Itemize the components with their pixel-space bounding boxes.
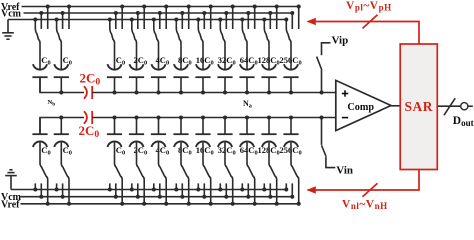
svg-text:C0: C0	[138, 55, 147, 67]
capacitor C1b (C0, bottom array)	[39, 118, 41, 135]
SAR block U2 (red box)	[400, 44, 437, 170]
svg-text:C0: C0	[292, 55, 301, 67]
switch S5b contacts (bottom, to rails)	[153, 183, 155, 189]
switch S8b arm (bottom)	[225, 142, 233, 203]
capacitor C7b (16C0, bottom array)	[202, 118, 204, 135]
node wire (bottom bus, right segment to comparator -)	[92, 117, 336, 119]
svg-text:Vnl~VnH: Vnl~VnH	[342, 199, 388, 211]
switch S6b contacts (bottom, to rails)	[175, 183, 177, 189]
switch S8b contacts (bottom, to rails)	[219, 183, 221, 189]
capacitor C2t (C0, top array)	[54, 64, 68, 70]
svg-text:C0: C0	[226, 145, 235, 157]
capacitor C11t (256C0, top array)	[284, 64, 298, 70]
comparator - pin mark	[342, 117, 348, 119]
svg-text:C0: C0	[248, 55, 257, 67]
svg-text:C0: C0	[160, 145, 169, 157]
switch S_Vip (input sampling, top)	[322, 43, 331, 55]
switch S2b contacts (bottom, to rails)	[56, 183, 58, 189]
switch S10b arm (bottom)	[269, 142, 277, 203]
capacitor C9b (64C0, bottom array)	[246, 118, 248, 135]
switch S9b arm (bottom)	[247, 142, 255, 203]
ground rail (bottom)	[11, 189, 286, 191]
svg-text:128: 128	[258, 55, 271, 65]
svg-text:32: 32	[218, 55, 227, 65]
svg-text:C0: C0	[63, 55, 72, 67]
switch S11b contacts (bottom, to rails)	[285, 183, 287, 189]
switch S5a arm (top)	[154, 28, 159, 70]
wire comparator output to SAR	[391, 105, 401, 107]
switch S7b arm (bottom)	[203, 142, 211, 203]
svg-text:SAR: SAR	[405, 99, 434, 114]
switch S6a contacts (top, to rails)	[175, 20, 177, 29]
bridge capacitor 2C0 (bottom, red)	[84, 111, 87, 123]
switch S10a contacts (top, to rails)	[263, 20, 265, 29]
capacitor C5t (4C0, top array)	[152, 64, 166, 70]
svg-text:C0: C0	[270, 55, 279, 67]
switch S9b contacts (bottom, to rails)	[241, 183, 243, 189]
switch S11a arm (top)	[286, 28, 291, 70]
Vref rail (bottom)	[21, 203, 299, 205]
switch S7a arm (top)	[198, 28, 203, 70]
switch S7a contacts (top, to rails)	[197, 20, 199, 29]
switch S7b contacts (bottom, to rails)	[197, 183, 199, 189]
ground (bottom-left)	[5, 170, 17, 190]
Vcm rail (bottom)	[21, 196, 293, 198]
switch S8a arm (top)	[220, 28, 225, 70]
svg-text:C0: C0	[204, 55, 213, 67]
switch S5a contacts (top, to rails)	[153, 20, 155, 29]
op-amp U1 comparator body	[336, 80, 391, 130]
switch S1a contacts (top, to rails)	[34, 20, 36, 29]
Vref rail (top)	[22, 6, 299, 8]
svg-text:C0: C0	[292, 145, 301, 157]
switch S11b arm (bottom)	[291, 142, 299, 203]
capacitor C10b (128C0, bottom array)	[268, 118, 270, 135]
capacitor C4t (2C0, top array)	[130, 64, 144, 70]
switch S3a arm (top)	[110, 28, 115, 70]
switch S_Vin (input sampling, bottom)	[321, 118, 323, 145]
switch S2b arm (bottom)	[61, 142, 69, 203]
switch S3b contacts (bottom, to rails)	[109, 183, 111, 189]
switch S8a contacts (top, to rails)	[219, 20, 221, 29]
svg-text:256: 256	[280, 55, 293, 65]
svg-text:Na: Na	[243, 99, 252, 110]
switch S4b arm (bottom)	[137, 142, 145, 203]
bridge capacitor 2C0 (top, red)	[84, 86, 87, 98]
svg-text:C0: C0	[63, 145, 72, 157]
switch S1b contacts (bottom, to rails)	[34, 183, 36, 189]
capacitor C9t (64C0, top array)	[240, 64, 254, 70]
svg-text:C0: C0	[270, 145, 279, 157]
svg-text:C0: C0	[226, 55, 235, 67]
comparator + pin mark	[342, 93, 348, 95]
svg-text:Nb: Nb	[48, 99, 56, 107]
svg-text:Vcm: Vcm	[1, 9, 22, 20]
switch S9a contacts (top, to rails)	[241, 20, 243, 29]
switch S10a arm (top)	[264, 28, 269, 70]
control bus Vpl-VpH (top, red)	[308, 22, 420, 45]
svg-text:C0: C0	[116, 145, 125, 157]
svg-text:C0: C0	[204, 145, 213, 157]
capacitor C2b (C0, bottom array)	[60, 118, 62, 135]
control bus Vnl-VnH (bottom, red)	[308, 170, 420, 191]
capacitor C3b (C0, bottom array)	[114, 118, 116, 135]
svg-text:Comp: Comp	[347, 102, 374, 113]
svg-text:2C0: 2C0	[80, 70, 101, 87]
capacitor C5b (4C0, bottom array)	[158, 118, 160, 135]
capacitor C3t (C0, top array)	[108, 64, 122, 70]
switch S1a arm (top)	[35, 28, 40, 70]
svg-text:Vip: Vip	[332, 35, 349, 47]
switch S5b arm (bottom)	[159, 142, 167, 203]
svg-text:C0: C0	[41, 145, 50, 157]
node wire (bottom bus, left segment)	[40, 118, 84, 135]
switch S3a contacts (top, to rails)	[109, 20, 111, 29]
switch S2a arm (top)	[57, 28, 62, 70]
svg-text:Vref: Vref	[1, 199, 20, 210]
capacitor C6b (8C0, bottom array)	[180, 118, 182, 135]
capacitor C8b (32C0, bottom array)	[224, 118, 226, 135]
svg-text:C0: C0	[41, 55, 50, 67]
capacitor C4b (2C0, bottom array)	[136, 118, 138, 135]
switch S4b contacts (bottom, to rails)	[131, 183, 133, 189]
ground rail (top)	[8, 19, 286, 21]
capacitor C11b (256C0, bottom array)	[290, 118, 292, 135]
Vcm rail (top)	[24, 12, 293, 14]
capacitor C7t (16C0, top array)	[196, 64, 210, 70]
switch S11a contacts (top, to rails)	[285, 20, 287, 29]
capacitor C1t (C0, top array)	[33, 64, 47, 70]
switch S10b contacts (bottom, to rails)	[263, 183, 265, 189]
svg-text:16: 16	[196, 55, 205, 65]
switch S9a arm (top)	[242, 28, 247, 70]
svg-text:C0: C0	[182, 55, 191, 67]
capacitor C8t (32C0, top array)	[218, 64, 232, 70]
capacitor C10t (128C0, top array)	[262, 64, 276, 70]
svg-text:Dout: Dout	[453, 115, 474, 128]
svg-text:Vin: Vin	[336, 164, 353, 176]
svg-text:C0: C0	[182, 145, 191, 157]
capacitor C6t (8C0, top array)	[174, 64, 188, 70]
svg-text:Vpl~VpH: Vpl~VpH	[346, 0, 392, 13]
node Na wire (top bus, right segment to comparator +)	[92, 92, 336, 94]
svg-text:2C0: 2C0	[79, 123, 100, 140]
switch S6a arm (top)	[176, 28, 181, 70]
ground (top-left)	[2, 20, 14, 40]
svg-text:C0: C0	[160, 55, 169, 67]
switch S2a contacts (top, to rails)	[56, 20, 58, 29]
switch S6b arm (bottom)	[181, 142, 189, 203]
svg-text:C0: C0	[248, 145, 257, 157]
switch S1b arm (bottom)	[40, 142, 48, 203]
switch S4a contacts (top, to rails)	[131, 20, 133, 29]
switch S3b arm (bottom)	[115, 142, 123, 203]
svg-text:C0: C0	[138, 145, 147, 157]
output switch and wire Dout	[438, 105, 461, 107]
switch S4a arm (top)	[132, 28, 137, 70]
svg-text:C0: C0	[116, 55, 125, 67]
node Nb wire (top bus, left segment)	[40, 77, 84, 92]
